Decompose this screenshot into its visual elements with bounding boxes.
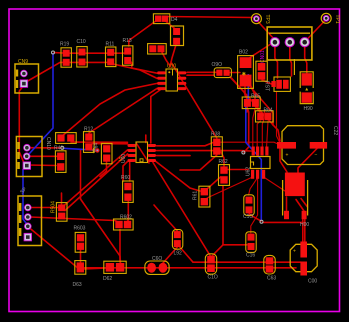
capacitor C61 bottom right xyxy=(290,242,317,285)
svg-text:R504: R504 xyxy=(51,201,57,213)
wire LED down to U10 xyxy=(170,43,177,67)
svg-text:U62: U62 xyxy=(246,167,252,176)
wire U10 to R18 long diag xyxy=(171,62,217,138)
pad SP-3 xyxy=(24,223,31,230)
wire CN01 pin2 down xyxy=(290,44,292,76)
pad SP-4 xyxy=(24,233,32,241)
wire D4 to R13 xyxy=(129,21,157,47)
wire TP1 to CN01 pin3 xyxy=(306,21,325,41)
connector CN01 xyxy=(267,27,312,60)
wire R13 bottom to U10 pin1 xyxy=(128,58,157,73)
via V3 xyxy=(242,151,245,154)
svg-text:C22: C22 xyxy=(332,126,338,135)
wire B02 to R65 xyxy=(245,86,247,99)
svg-text:C63: C63 xyxy=(267,276,276,282)
wire R65 to R64 xyxy=(255,106,260,112)
svg-text:C10: C10 xyxy=(77,39,86,45)
resistor R602 xyxy=(114,214,134,230)
svg-text:R65: R65 xyxy=(251,93,260,99)
wire SOT feed diag xyxy=(262,80,272,84)
capacitor C65 xyxy=(205,254,218,281)
wire CN10 pad2 to cluster xyxy=(28,155,58,157)
resistor R19 xyxy=(60,42,71,68)
capacitor CB02 xyxy=(256,61,267,81)
via V1 xyxy=(52,51,55,54)
wire U62 pin6 to C64 xyxy=(251,178,258,233)
wire U62 pin3 riser xyxy=(262,110,264,148)
wire U60 to C65 long diagonal xyxy=(153,163,211,258)
resistor R13 xyxy=(123,38,133,65)
capacitor C22 xyxy=(277,126,338,165)
resistor R12 xyxy=(84,126,95,152)
svg-text:U60: U60 xyxy=(121,154,127,163)
wire blue right side long xyxy=(246,74,261,220)
wire R62 area vertical down xyxy=(222,186,224,245)
ic U60 xyxy=(121,142,156,163)
wire to C64 bottom pad xyxy=(223,244,247,246)
wire Q1 to C22 left xyxy=(277,92,280,143)
wire CN01 pin1 down xyxy=(275,44,278,78)
wire across U60 body xyxy=(137,144,150,164)
via V5 xyxy=(93,148,99,153)
wire L92 up diag xyxy=(154,205,177,231)
transistor Q1 xyxy=(271,77,290,91)
pad CN10-2 xyxy=(23,153,30,160)
wire C22 left pad to DPAK xyxy=(280,149,287,173)
wire CN01 pin3 down xyxy=(305,44,307,73)
wire U60 diag down to R61 xyxy=(154,160,200,191)
wire D60 diag to R65 xyxy=(230,77,247,98)
svg-text:R64: R64 xyxy=(264,108,273,114)
wire top row R19-C10-R11-R13 xyxy=(54,52,128,55)
svg-text:TP3: TP3 xyxy=(264,15,270,24)
svg-text:+: + xyxy=(286,153,289,159)
resistor R504 xyxy=(51,201,68,221)
wire R12 to U60 pin1b xyxy=(92,143,127,145)
svg-text:R38: R38 xyxy=(211,132,220,138)
wire U62 pin5 to R61 xyxy=(207,177,253,198)
testpoint TP1 xyxy=(321,13,331,23)
wire R65 left down xyxy=(246,107,248,112)
pad SP-1 xyxy=(24,204,31,211)
svg-text:O9O: O9O xyxy=(212,62,223,68)
wire R62 up xyxy=(220,150,224,166)
wire DPAK small pad up xyxy=(286,197,288,211)
wire to C65 top pad xyxy=(211,245,223,257)
wire blue SP branch xyxy=(23,169,28,226)
svg-text:+: + xyxy=(293,249,296,255)
pad CN01-2 xyxy=(285,38,294,47)
capacitor X1 xyxy=(148,44,167,54)
wire R40 to U60 pin1 xyxy=(71,141,128,143)
diode D80 xyxy=(300,72,313,112)
resistor R603 xyxy=(74,226,86,253)
svg-text:H00: H00 xyxy=(300,222,309,228)
capacitor C10 xyxy=(77,39,88,67)
diode D4 xyxy=(153,14,177,24)
inductor L92 xyxy=(172,230,182,257)
svg-text:R603: R603 xyxy=(74,226,86,232)
svg-text:C00: C00 xyxy=(308,279,317,285)
wire R18 to C22 left pad xyxy=(221,142,280,144)
capacitor C63 xyxy=(243,195,254,220)
svg-text:▲: ▲ xyxy=(304,87,309,93)
svg-text:C6O: C6O xyxy=(152,256,162,262)
diode D60 xyxy=(212,62,232,78)
connector CN9 xyxy=(15,59,39,93)
svg-text:R11: R11 xyxy=(106,42,115,48)
wire U10 right pads to D60 double xyxy=(187,71,216,73)
resistor R60 xyxy=(121,175,133,202)
wire bottom horizontal lower xyxy=(84,267,296,269)
wire U62 pin2 riser xyxy=(257,121,260,148)
svg-text:RST: RST xyxy=(264,81,270,91)
svg-text:R19: R19 xyxy=(60,42,69,48)
wire R12 to U10 pin4 xyxy=(89,88,157,133)
svg-text:−: − xyxy=(315,152,318,158)
wire CN9 pad2 down left column xyxy=(19,85,24,162)
pad CN10-1 xyxy=(24,144,31,151)
wire R602 col down to D62 xyxy=(81,199,121,263)
via V4 xyxy=(260,220,263,223)
connector CN10 xyxy=(16,137,42,177)
wire fan to U10 pin3 xyxy=(61,83,157,137)
pad SP-2 xyxy=(24,214,31,221)
resistor R65 xyxy=(242,93,260,108)
wire R11 bottom to U10 pin2 xyxy=(111,64,157,79)
wire R65 left to via V3 xyxy=(244,108,249,153)
svg-text:R60: R60 xyxy=(121,175,130,181)
wire B02 to Q1 col xyxy=(250,87,273,126)
diode D62 xyxy=(103,261,126,282)
svg-text:R13: R13 xyxy=(123,38,132,44)
pad CN9-2 xyxy=(20,80,28,88)
capacitor C66 xyxy=(264,255,277,281)
svg-text:R602: R602 xyxy=(120,214,132,220)
resistor R64 xyxy=(256,108,274,123)
wire bottom row R19-C10-R11 xyxy=(66,61,111,63)
wire B02 top feed from CN01 pin1 xyxy=(250,44,272,58)
svg-text:C1O: C1O xyxy=(243,214,253,220)
svg-text:U10: U10 xyxy=(167,64,176,70)
wire R64 to C22 xyxy=(268,119,280,141)
wire DPAK diag pair xyxy=(296,200,304,212)
wire SP pad2 right xyxy=(30,217,118,222)
inductor B02 xyxy=(238,50,254,89)
wire R504 up xyxy=(61,193,63,204)
pad CN01-1 xyxy=(270,38,279,47)
svg-text:R61: R61 xyxy=(193,191,199,200)
capacitor C60 xyxy=(145,256,169,275)
resistor R18 xyxy=(211,132,222,157)
svg-text:C16: C16 xyxy=(246,253,255,259)
resistor R62 xyxy=(219,159,230,186)
capacitor C40 xyxy=(55,151,66,173)
wire C22 right pad to DPAK xyxy=(298,149,317,174)
wire blue R40 via right xyxy=(64,148,97,150)
pad CN9-1 xyxy=(21,70,28,77)
wire R504 double diag to U60 xyxy=(63,150,128,207)
wire CN9 to R19 xyxy=(26,62,66,82)
wire CN10 pad1 to via R40 xyxy=(28,147,61,149)
svg-text:TP1: TP1 xyxy=(334,15,340,24)
wire bottom horizontal upper xyxy=(193,261,301,263)
blue bottom-layer traces xyxy=(23,53,261,226)
wire SP pad1 to R504 xyxy=(30,207,59,209)
pad CN01-3 xyxy=(300,38,309,47)
capacitor C41 xyxy=(101,143,112,163)
wire U10 pin4 to U60 xyxy=(151,90,160,143)
resistor R40 pair xyxy=(54,133,76,152)
svg-text:CN9: CN9 xyxy=(18,59,28,65)
capacitor C64 xyxy=(246,232,256,259)
wire via to DPAK pad xyxy=(263,221,303,223)
resistor R11 xyxy=(106,42,116,67)
transistor Q60 dpak xyxy=(283,173,310,229)
svg-text:B02: B02 xyxy=(239,50,248,56)
wire R61 to R62 xyxy=(207,177,221,189)
wire U62 pin7 to Q60 tab xyxy=(264,177,285,191)
wire CN10 pad3 to cluster xyxy=(27,164,56,167)
svg-text:✱: ✱ xyxy=(242,72,246,78)
testpoint TP3 xyxy=(251,14,261,24)
svg-text:C1O: C1O xyxy=(208,275,218,281)
silk line D80 xyxy=(293,59,295,75)
wire R602 left pad to D62 xyxy=(119,230,121,263)
wire TP3 to CN01 pin1 xyxy=(258,21,275,40)
svg-text:R62: R62 xyxy=(219,159,228,165)
wire U62 pin1 riser xyxy=(253,108,255,148)
svg-text:CN10: CN10 xyxy=(45,137,51,150)
via V2 xyxy=(61,146,64,149)
wire U62 pin6 to C63 xyxy=(249,178,258,195)
svg-text:H90: H90 xyxy=(304,106,313,112)
pad CN10-3 xyxy=(23,162,31,170)
ic U62 xyxy=(246,147,271,179)
svg-text:D63: D63 xyxy=(73,282,82,288)
wire R603 column xyxy=(80,150,82,199)
svg-text:L92: L92 xyxy=(174,251,183,257)
wire via to C63 xyxy=(249,211,261,221)
resistor R61 xyxy=(193,186,210,207)
wire R62 right xyxy=(228,169,248,171)
wire misc right-edge diagonals xyxy=(232,78,267,118)
wire D63 label net xyxy=(84,268,110,269)
svg-text:D62: D62 xyxy=(103,276,112,282)
wire R60 second feed xyxy=(123,162,128,182)
wire L92 down to horizontals xyxy=(179,246,193,262)
op-amp U10 xyxy=(157,64,186,92)
led D5 xyxy=(171,26,184,46)
wire C41 pad2 down xyxy=(100,160,107,177)
diode D63 xyxy=(73,261,86,288)
wire blue via to CN10 pad2 xyxy=(27,53,53,156)
svg-text:R12: R12 xyxy=(84,126,93,132)
svg-text:D4: D4 xyxy=(171,17,178,23)
wire DPAK pads down to C60 xyxy=(302,218,304,242)
wire U60 right pads to R18 xyxy=(157,143,214,146)
wire D4 to LED xyxy=(165,21,177,31)
wire D60 to B02 xyxy=(229,72,240,74)
wire R18 bottom diag xyxy=(180,155,217,170)
wire C60cap diag to L92 xyxy=(163,247,177,263)
wire R60 down to R602 xyxy=(129,163,131,182)
connector SP xyxy=(18,196,42,246)
wire SP square diag to D63 xyxy=(29,228,79,270)
wire X1 to U10 xyxy=(161,50,170,66)
wire top net TP3 xyxy=(166,17,252,18)
wire U60 top feed xyxy=(145,135,147,143)
wire U62 pin4 to R64 xyxy=(267,121,268,147)
